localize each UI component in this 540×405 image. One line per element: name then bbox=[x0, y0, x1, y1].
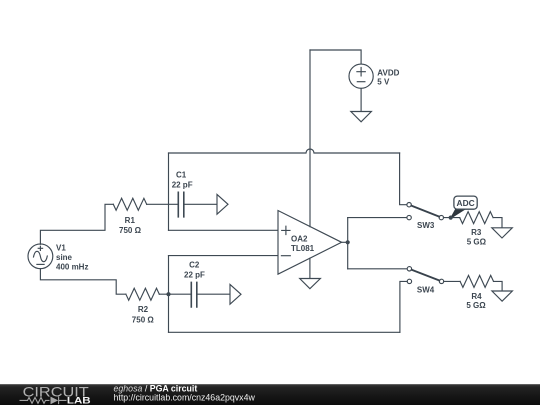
resistor R1 bbox=[113, 198, 146, 210]
svg-text:5 GΩ: 5 GΩ bbox=[467, 237, 487, 246]
resistor R3 bbox=[460, 212, 493, 224]
svg-text:SW4: SW4 bbox=[417, 286, 435, 295]
ground below AVDD bbox=[351, 112, 372, 122]
R1 label bbox=[119, 216, 142, 235]
wire to SW4 upper throw bbox=[348, 268, 407, 270]
svg-text:R2: R2 bbox=[138, 305, 149, 314]
svg-text:http://circuitlab.com/cnz46a2p: http://circuitlab.com/cnz46a2pqvx4w bbox=[114, 392, 256, 402]
svg-text:R4: R4 bbox=[471, 292, 482, 301]
AVDD label bbox=[377, 68, 399, 86]
capacitor C1 bbox=[178, 192, 184, 218]
output branch vertical bbox=[347, 218, 349, 269]
wire R2 to C2 bbox=[159, 293, 191, 295]
svg-text:C1: C1 bbox=[176, 171, 187, 180]
svg-text:22 pF: 22 pF bbox=[172, 180, 193, 189]
left vertical top rail to + input bbox=[168, 153, 170, 230]
net flag after C2 bbox=[230, 284, 241, 304]
wire C2 to flag bbox=[197, 293, 231, 295]
ground below R4 bbox=[492, 291, 513, 301]
op-amp - bbox=[281, 255, 290, 257]
wire V1 bottom to R2 bbox=[40, 269, 126, 295]
wire - input bbox=[169, 255, 279, 257]
svg-text:TL081: TL081 bbox=[291, 244, 315, 253]
OA2 label bbox=[291, 235, 315, 253]
junction R2/C2/feedback bbox=[166, 292, 170, 296]
svg-text:750 Ω: 750 Ω bbox=[132, 315, 155, 324]
net flag after C1 bbox=[217, 194, 228, 214]
op-amp + bbox=[282, 226, 290, 234]
wire SW4 lower throw to bottom rail bbox=[400, 281, 407, 332]
svg-text:sine: sine bbox=[56, 253, 73, 262]
svg-text:5 GΩ: 5 GΩ bbox=[466, 301, 486, 310]
logo resistor-diode symbol bbox=[20, 397, 67, 405]
wire R1 to C1 bbox=[147, 203, 179, 205]
svg-text:5 V: 5 V bbox=[377, 78, 390, 87]
svg-text:C2: C2 bbox=[189, 261, 200, 270]
ground below R3 bbox=[492, 228, 513, 238]
ground below op-amp bbox=[300, 279, 321, 289]
svg-text:22 pF: 22 pF bbox=[184, 270, 205, 279]
V1 label bbox=[56, 243, 88, 271]
voltage source V1 bbox=[28, 244, 53, 269]
voltage source AVDD bbox=[349, 64, 373, 88]
wire SW4 pole to R4 bbox=[444, 280, 460, 282]
svg-text:400 mHz: 400 mHz bbox=[56, 263, 88, 272]
wire + input bbox=[169, 229, 279, 231]
switch SW3 bbox=[407, 203, 444, 220]
wire R3 to ground bbox=[493, 218, 502, 228]
wire V1 top to R1 bbox=[40, 204, 113, 244]
op-amp output wire bbox=[342, 241, 348, 243]
wire AVDD to ground bbox=[360, 88, 362, 111]
svg-text:R1: R1 bbox=[125, 216, 136, 225]
top rail with hop bbox=[169, 149, 400, 153]
wire to SW3 lower throw bbox=[348, 217, 407, 219]
footer bar bbox=[0, 384, 540, 405]
svg-text:ADC: ADC bbox=[457, 198, 475, 208]
AVDD wire down to op-amp bbox=[309, 50, 311, 227]
ADC flag box bbox=[454, 196, 477, 209]
resistor R2 bbox=[126, 288, 159, 300]
C2 label bbox=[184, 261, 205, 280]
switch SW4 bbox=[407, 267, 444, 284]
capacitor C2 bbox=[191, 282, 197, 308]
wire op-amp to ground bbox=[309, 258, 311, 278]
R3 label bbox=[467, 228, 487, 246]
svg-text:R3: R3 bbox=[471, 228, 482, 237]
wire C1 to flag bbox=[184, 203, 217, 205]
svg-text:AVDD: AVDD bbox=[377, 68, 399, 77]
R4 label bbox=[466, 292, 486, 310]
right rail to SW3 upper throw bbox=[400, 153, 407, 205]
C1 label bbox=[172, 171, 193, 190]
R2 label bbox=[132, 305, 155, 324]
ADC net flag pointer bbox=[451, 209, 465, 218]
AVDD top wire bbox=[310, 50, 361, 64]
bottom rail bbox=[169, 331, 400, 333]
resistor R4 bbox=[460, 275, 493, 287]
left vertical - input to bottom rail bbox=[168, 256, 170, 333]
wire SW3 pole to R3 bbox=[444, 217, 460, 219]
svg-text:OA2: OA2 bbox=[291, 235, 308, 244]
svg-text:LAB: LAB bbox=[67, 395, 91, 405]
svg-text:SW3: SW3 bbox=[417, 221, 435, 230]
output node junction bbox=[346, 240, 350, 244]
op-amp OA2 bbox=[278, 211, 342, 275]
wire R4 to ground bbox=[494, 281, 503, 291]
junction ADC node bbox=[449, 216, 453, 220]
svg-text:750 Ω: 750 Ω bbox=[119, 226, 142, 235]
svg-text:V1: V1 bbox=[56, 243, 66, 252]
